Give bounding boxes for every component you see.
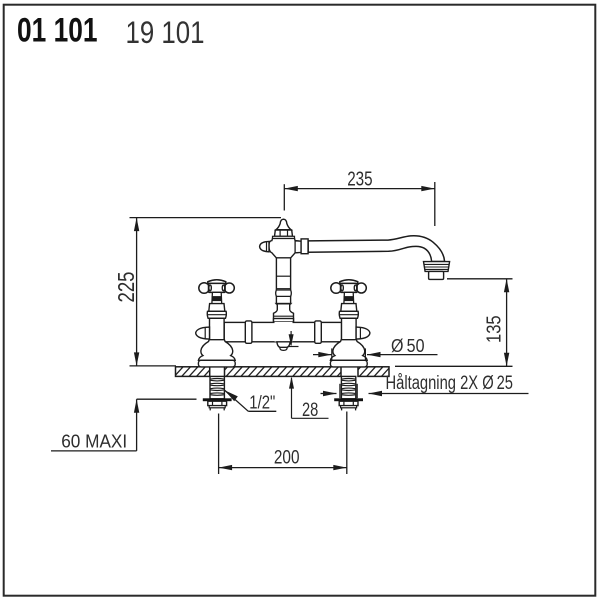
svg-text:Ø 50: Ø 50 <box>391 336 425 356</box>
valve bonnet <box>341 304 357 312</box>
svg-text:135: 135 <box>483 315 505 343</box>
column shaft <box>276 258 290 304</box>
swivel body <box>269 238 301 257</box>
swivel left nose <box>260 241 269 251</box>
svg-text:225: 225 <box>113 272 139 303</box>
escutcheon <box>330 360 367 367</box>
svg-text:19 101: 19 101 <box>126 14 205 50</box>
mounting nut <box>339 401 358 405</box>
bridge end cap <box>196 327 210 339</box>
bell base <box>198 340 235 361</box>
svg-text:200: 200 <box>274 447 300 469</box>
spout tube <box>308 236 444 262</box>
dimension 225 <box>130 217 282 219</box>
escutcheon <box>198 360 235 367</box>
central column lower (over bridge) <box>274 304 294 322</box>
threaded shank <box>210 376 224 398</box>
valve bonnet <box>209 304 225 312</box>
bridge collar right <box>315 321 322 343</box>
svg-text:Håltagning 2X Ø 25: Håltagning 2X Ø 25 <box>386 373 514 394</box>
svg-text:1/2": 1/2" <box>249 391 275 412</box>
column bottom cap <box>277 342 290 348</box>
aerator <box>424 262 450 272</box>
bridge tube <box>224 322 341 341</box>
svg-text:28: 28 <box>302 399 318 421</box>
bridge end cap <box>356 327 370 339</box>
svg-text:235: 235 <box>347 169 372 191</box>
finial <box>276 219 291 230</box>
mounting nut <box>208 401 227 405</box>
spout collar <box>295 241 301 253</box>
handle cap <box>208 280 226 284</box>
valve body <box>210 318 225 339</box>
threaded shank <box>341 376 355 398</box>
dimension diameter 50 <box>331 348 333 360</box>
handle cap <box>340 280 358 284</box>
dimension 235 <box>283 184 285 210</box>
svg-text:01 101: 01 101 <box>17 12 98 50</box>
handle stem <box>212 292 222 303</box>
dimension 200 <box>218 414 220 475</box>
cross handle <box>331 283 342 294</box>
dimension 28 <box>290 331 292 345</box>
washer <box>203 398 232 401</box>
dimension 60 MAXI <box>137 398 197 400</box>
cross handle <box>199 283 210 294</box>
washer <box>334 398 363 401</box>
dimension drilling 2X diameter 25 <box>339 384 341 398</box>
bell base <box>330 340 367 361</box>
hex nut <box>275 230 293 236</box>
handle stem <box>344 292 354 303</box>
bridge collar left <box>245 321 252 343</box>
svg-text:60 MAXI: 60 MAXI <box>61 431 127 452</box>
valve body <box>342 318 357 339</box>
dimension half inch leader <box>225 390 238 401</box>
dimension 135 <box>447 278 513 280</box>
column/bridge junction <box>275 322 293 342</box>
